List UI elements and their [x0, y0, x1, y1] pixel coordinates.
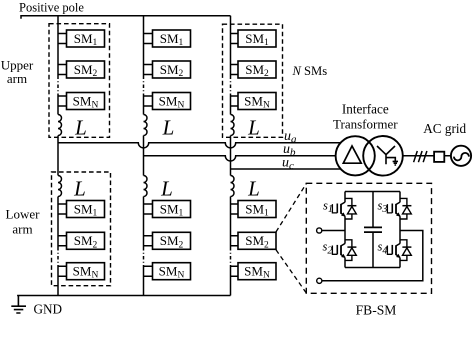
SMN upper c	[238, 93, 276, 111]
SM1 upper c	[238, 30, 276, 48]
svg-text:Interface: Interface	[342, 101, 389, 116]
SM2 upper a	[67, 61, 105, 79]
wire: bridge left leg	[344, 192, 346, 268]
wire: leg c lower chain	[231, 197, 239, 296]
wire: leg a lower dash-dot continuation	[57, 247, 59, 265]
svg-text:L: L	[74, 116, 87, 140]
inductor L upper c	[231, 115, 235, 136]
wire: leg b middle	[143, 136, 145, 176]
wire: bridge right leg	[399, 192, 401, 268]
SMN lower a	[67, 263, 105, 281]
svg-text:L: L	[160, 177, 173, 201]
wire: phase line ub with hop	[144, 156, 337, 161]
SM2 lower a	[67, 232, 105, 250]
inductor L upper a	[58, 115, 62, 136]
delta symbol	[343, 146, 361, 163]
upper terminal node	[317, 228, 322, 233]
AC source circle	[451, 146, 471, 166]
SM1 lower c	[238, 201, 276, 219]
svg-text:Transformer: Transformer	[333, 116, 398, 131]
svg-text:arm: arm	[7, 71, 27, 86]
grid impedance square	[434, 152, 444, 162]
wire: leg c lower dash-dot continuation	[230, 247, 232, 265]
inductor L upper b	[144, 115, 148, 136]
SMN upper a	[67, 93, 105, 111]
SM1 upper b	[153, 30, 191, 48]
switch S4	[387, 240, 411, 261]
SM1 upper a	[67, 30, 105, 48]
svg-text:L: L	[73, 177, 86, 201]
dashed box upper arm phase a	[49, 24, 110, 138]
svg-text:GND: GND	[34, 302, 63, 317]
wye symbol with grounded neutral	[377, 146, 398, 165]
transformer T1 delta winding circle	[336, 136, 375, 175]
ground	[11, 296, 26, 314]
wire: leg a middle	[57, 136, 59, 176]
capacitor C wires	[372, 192, 374, 268]
svg-text:L: L	[162, 116, 175, 140]
wire: leg a upper dash-dot continuation	[57, 76, 59, 95]
SM2 upper b	[153, 61, 191, 79]
svg-text:L: L	[247, 177, 260, 201]
dashed box upper arm phase c (N SMs)	[223, 24, 283, 137]
svg-text:N SMs: N SMs	[292, 64, 328, 78]
SMN upper b	[153, 93, 191, 111]
wire: leg a upper chain	[58, 16, 67, 115]
AC source sine	[454, 153, 469, 161]
wire: leg c upper dash-dot continuation	[230, 76, 232, 95]
switch S3	[387, 198, 411, 219]
svg-text:s3: s3	[378, 198, 388, 215]
SM2 lower c	[238, 232, 276, 250]
SMN lower c	[238, 263, 276, 281]
negative DC bus wire	[17, 295, 230, 297]
SMN lower b	[153, 263, 191, 281]
switch S2	[332, 240, 356, 261]
FB-SM dashed box	[306, 183, 431, 293]
lower terminal node	[317, 278, 322, 283]
SM2 lower b	[153, 232, 191, 250]
svg-text:AC grid: AC grid	[423, 121, 466, 136]
svg-text:s2: s2	[323, 240, 333, 257]
SM1 lower b	[153, 201, 191, 219]
wire: leg a lower chain	[58, 197, 67, 296]
svg-text:Positive pole: Positive pole	[19, 1, 84, 15]
wire: upper terminal to left midpoint	[322, 230, 345, 232]
bridge bottom rail	[345, 267, 400, 269]
svg-text:Lower: Lower	[6, 207, 41, 222]
svg-text:L: L	[247, 116, 260, 140]
inductor L lower b	[144, 176, 148, 197]
wire: leg b upper dash-dot continuation	[143, 76, 145, 95]
svg-text:FB-SM: FB-SM	[356, 303, 397, 318]
svg-text:s4: s4	[378, 240, 388, 257]
wire: leg b upper chain	[144, 16, 153, 115]
zoom leader dashed lines from SM2 to FB-SM	[276, 184, 306, 293]
wire: phase line uc	[231, 168, 342, 170]
wire: transformer to grid	[403, 155, 451, 157]
wire: leg b lower dash-dot continuation	[143, 247, 145, 265]
wire: leg b lower chain	[144, 197, 153, 296]
transformer T1 wye winding circle	[363, 136, 403, 176]
wire: leg c middle	[230, 136, 232, 176]
SM1 lower a	[67, 201, 105, 219]
wire: right midpoint to lower terminal	[322, 231, 423, 281]
positive DC bus wire	[21, 16, 231, 19]
wire: phase line ua with hops	[58, 143, 341, 148]
svg-text:s1: s1	[323, 198, 333, 215]
inductor L lower a	[58, 176, 62, 197]
line break slashes	[414, 151, 427, 162]
bridge top rail	[345, 191, 400, 193]
inductor L lower c	[231, 176, 235, 197]
SM2 upper c	[238, 61, 276, 79]
dashed box lower arm phase a	[52, 172, 111, 286]
switch S1	[332, 198, 356, 219]
wire: leg c upper chain	[231, 16, 239, 115]
svg-text:arm: arm	[12, 222, 32, 237]
capacitor C plates	[364, 227, 382, 232]
